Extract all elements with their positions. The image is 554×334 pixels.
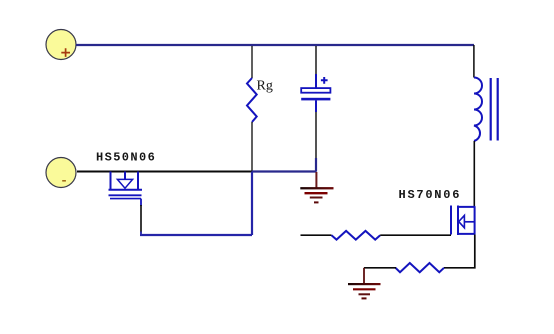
capacitor C1 top lead <box>315 46 317 74</box>
capacitor C1 bottom plate <box>301 98 330 101</box>
wire negative rail blue segment <box>252 170 317 172</box>
wire negative rail <box>77 171 252 173</box>
ground GND2 <box>348 283 381 285</box>
negative sign <box>62 180 66 182</box>
n-mosfet Q1 HS50N06 <box>109 172 143 199</box>
wire gate drop <box>140 199 142 206</box>
n-mosfet Q2 HS70N06 <box>451 206 476 236</box>
resistor R2 gate <box>332 231 381 240</box>
svg-text:Rg: Rg <box>257 79 273 94</box>
capacitor C1 top plate <box>301 88 330 93</box>
wire ground 2 lead <box>363 268 365 284</box>
transformer primary winding L1 <box>474 78 482 142</box>
wire ground 1 lead <box>315 172 317 188</box>
wire loop right riser <box>251 172 253 236</box>
resistor R3 source <box>396 263 444 272</box>
transformer core <box>491 78 498 141</box>
svg-text:HS70N06: HS70N06 <box>399 188 462 202</box>
wire Rg top lead <box>251 46 253 78</box>
battery positive terminal <box>46 30 76 60</box>
capacitor C1 polarity sign <box>321 77 328 84</box>
wire gate resistor right lead <box>380 234 451 236</box>
wire transformer feed <box>473 45 475 78</box>
svg-text:HS50N06: HS50N06 <box>96 151 156 165</box>
wire gate resistor left lead <box>301 234 332 236</box>
capacitor C1 bottom lead <box>315 100 317 112</box>
ground GND1 <box>300 187 333 189</box>
wire Rg bottom lead <box>251 122 253 171</box>
wire source resistor left lead <box>364 267 396 269</box>
positive sign <box>61 48 70 57</box>
wire drain feed <box>473 141 475 207</box>
wire top rail <box>76 44 474 46</box>
battery negative terminal <box>46 158 76 188</box>
resistor Rg <box>247 78 257 122</box>
wire source to resistor <box>444 235 475 268</box>
wire loop bottom <box>140 234 252 236</box>
